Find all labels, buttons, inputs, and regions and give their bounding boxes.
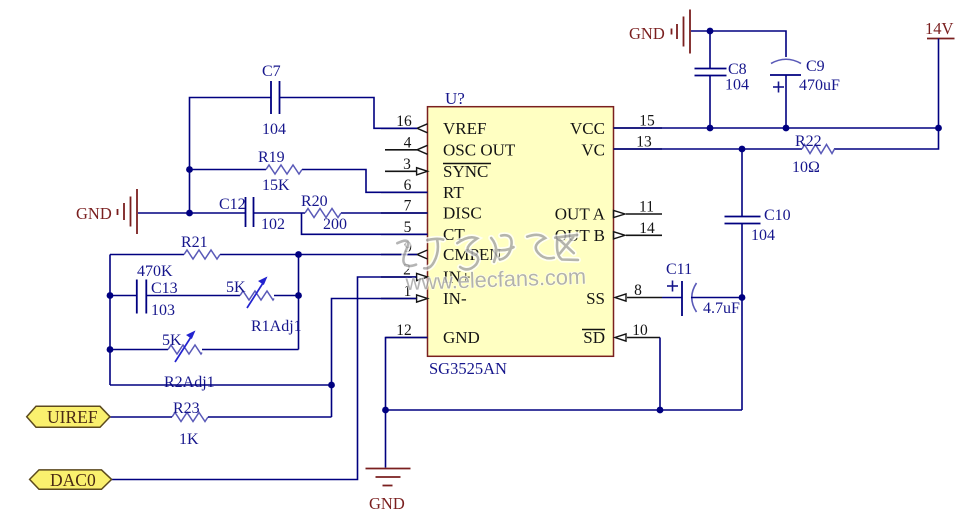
- resistor R19: [266, 165, 302, 174]
- svg-text:15K: 15K: [262, 177, 290, 194]
- capacitor C8: [695, 31, 727, 128]
- svg-text:C11: C11: [666, 261, 692, 278]
- svg-text:R23: R23: [173, 400, 200, 417]
- value 104 (C8): [725, 77, 749, 94]
- wire bottom of loop to node: [110, 384, 332, 386]
- value 470K: [137, 263, 173, 280]
- wire junction to pin 5: [302, 213, 428, 234]
- label R19: [258, 149, 285, 166]
- ground GND left symbol: [118, 189, 138, 234]
- svg-text:VC: VC: [581, 141, 605, 160]
- value 200: [323, 216, 347, 233]
- label R1Adj1: [251, 318, 302, 335]
- svg-text:UIREF: UIREF: [47, 407, 98, 427]
- wire pin 1 IN- vertical: [332, 299, 417, 418]
- svg-text:VCC: VCC: [570, 119, 605, 138]
- svg-text:C9: C9: [806, 58, 825, 75]
- value 15K: [262, 177, 290, 194]
- svg-text:C13: C13: [151, 280, 178, 297]
- resistor R21: [184, 250, 220, 259]
- resistor R20: [305, 209, 341, 218]
- svg-text:SG3525AN: SG3525AN: [429, 359, 507, 378]
- value 10ohm: [792, 159, 820, 176]
- svg-text:6: 6: [404, 177, 412, 194]
- svg-text:R22: R22: [795, 133, 822, 150]
- svg-text:13: 13: [636, 134, 652, 151]
- label C8: [728, 61, 747, 78]
- svg-text:SD: SD: [583, 328, 605, 347]
- port DAC0: [30, 470, 112, 490]
- svg-text:5K: 5K: [226, 279, 246, 296]
- wire VC pin 13 net with R22: [614, 128, 939, 149]
- svg-text:3: 3: [403, 156, 411, 173]
- svg-text:C7: C7: [262, 63, 281, 80]
- capacitor C12: [246, 197, 254, 227]
- svg-text:8: 8: [634, 282, 642, 299]
- potentiometer R1Adj1: [240, 291, 274, 300]
- pin stubs U1 left (pins 16,4,3,6,7,5,9,2,1,12): [381, 128, 428, 337]
- wire GND left to C12: [138, 212, 246, 214]
- capacitor C11 electrolytic: [662, 281, 742, 316]
- label GND top right: [629, 24, 665, 43]
- wire VCC pin 15 net: [614, 127, 939, 129]
- value 4.7uF: [703, 300, 740, 317]
- svg-text:102: 102: [261, 216, 285, 233]
- wire GND top to C8 C9: [691, 31, 786, 57]
- label GND left: [76, 204, 112, 223]
- label R20: [301, 193, 328, 210]
- label C9: [806, 58, 825, 75]
- svg-text:VREF: VREF: [443, 119, 486, 138]
- wire UIREF to R23 to node: [110, 416, 332, 418]
- svg-text:R1Adj1: R1Adj1: [251, 318, 302, 335]
- resistor R22: [802, 145, 835, 154]
- plus sign C11: [667, 281, 678, 292]
- port UIREF: [27, 406, 110, 427]
- svg-text:OUT A: OUT A: [555, 205, 606, 224]
- svg-text:4.7uF: 4.7uF: [703, 300, 740, 317]
- wire R19 net to pin 6: [190, 170, 428, 193]
- resistor R23: [172, 413, 208, 422]
- svg-text:14V: 14V: [925, 19, 954, 38]
- svg-text:R20: R20: [301, 193, 328, 210]
- svg-text:DISC: DISC: [443, 204, 482, 223]
- label R2Adj1: [164, 374, 215, 391]
- svg-text:16: 16: [396, 113, 412, 130]
- svg-text:104: 104: [751, 227, 775, 244]
- wire R2Adj1 line: [110, 349, 299, 351]
- label C10: [764, 207, 791, 224]
- svg-text:GND: GND: [443, 328, 480, 347]
- capacitor C13: [137, 280, 147, 314]
- wire C13 to R1Adj1: [110, 295, 299, 297]
- svg-text:RT: RT: [443, 183, 464, 202]
- wire pin 2 IN+ to DAC0: [112, 277, 417, 480]
- part label SG3525AN: [429, 359, 507, 378]
- svg-text:14: 14: [639, 220, 655, 237]
- value 104 (C7): [262, 121, 286, 138]
- svg-text:4: 4: [404, 135, 412, 152]
- svg-text:DAC0: DAC0: [50, 470, 96, 490]
- svg-text:470K: 470K: [137, 263, 173, 280]
- label 5K (R2Adj1): [162, 332, 182, 349]
- wire C7 net to pin 16: [190, 98, 418, 214]
- watermark: [397, 232, 586, 295]
- label C7: [262, 63, 281, 80]
- capacitor C7: [271, 81, 280, 114]
- wire C12 to R20 to pin 7: [254, 212, 428, 214]
- label R22: [795, 133, 822, 150]
- svg-text:1K: 1K: [179, 431, 199, 448]
- value 1K: [179, 431, 199, 448]
- pin arrows U1 (chevrons pins 16,4,9; input triangles pins 3,2,1; out triangles 11,14; in triangles 8,10): [417, 124, 626, 341]
- svg-text:11: 11: [639, 199, 654, 216]
- wire left loop vertical: [109, 255, 111, 386]
- svg-text:5K: 5K: [162, 332, 182, 349]
- pot arrow R1Adj1: [247, 278, 267, 309]
- label 5K (R1Adj1): [226, 279, 246, 296]
- wire R21 net to pin 9: [110, 254, 417, 256]
- pin name overline SYNC: [443, 163, 491, 165]
- wire right loop vertical: [298, 255, 300, 350]
- wire C10 vertical: [741, 149, 743, 410]
- pin name overline SD: [582, 329, 605, 331]
- potentiometer R2Adj1: [168, 345, 202, 354]
- pin numbers U1 left: [396, 113, 412, 339]
- svg-text:104: 104: [725, 77, 749, 94]
- svg-text:12: 12: [396, 322, 412, 339]
- pin names U1 right: [555, 119, 606, 347]
- svg-text:GND: GND: [369, 494, 405, 513]
- label R23: [173, 400, 200, 417]
- label 14V: [925, 19, 954, 38]
- capacitor C9 electrolytic: [770, 59, 801, 128]
- wire pin 12 GND net: [386, 338, 743, 411]
- svg-text:10Ω: 10Ω: [792, 159, 820, 176]
- wire pin 10 SD down: [659, 338, 661, 411]
- designator U?: [445, 89, 465, 108]
- ground GND top right symbol: [672, 10, 691, 54]
- label C12: [219, 196, 246, 213]
- svg-text:C10: C10: [764, 207, 791, 224]
- svg-text:R21: R21: [181, 234, 208, 251]
- svg-text:104: 104: [262, 121, 286, 138]
- pot arrow R2Adj1: [175, 332, 195, 363]
- value 103: [151, 302, 175, 319]
- svg-text:U?: U?: [445, 89, 465, 108]
- plus sign C9: [773, 82, 784, 93]
- power 14V symbol: [927, 39, 955, 129]
- pin names U1 left: [443, 119, 516, 347]
- svg-text:200: 200: [323, 216, 347, 233]
- svg-text:103: 103: [151, 302, 175, 319]
- value 470uF: [799, 77, 840, 94]
- value 102: [261, 216, 285, 233]
- pin stubs U1 right (pins 15,13,11,14,8,10): [614, 128, 663, 338]
- label C11: [666, 261, 692, 278]
- svg-text:GND: GND: [629, 24, 665, 43]
- value 104 (C10): [751, 227, 775, 244]
- svg-text:C12: C12: [219, 196, 246, 213]
- svg-text:SS: SS: [586, 289, 605, 308]
- pin numbers U1 right: [632, 113, 655, 340]
- svg-text:OSC OUT: OSC OUT: [443, 141, 516, 160]
- svg-text:SYNC: SYNC: [443, 162, 488, 181]
- capacitor C10: [725, 217, 761, 224]
- ground GND bottom symbol: [366, 410, 411, 486]
- svg-text:C8: C8: [728, 61, 747, 78]
- svg-text:15: 15: [639, 113, 655, 130]
- svg-text:R19: R19: [258, 149, 285, 166]
- label GND bottom: [369, 494, 405, 513]
- svg-text:10: 10: [632, 322, 648, 339]
- svg-text:GND: GND: [76, 204, 112, 223]
- svg-text:R2Adj1: R2Adj1: [164, 374, 215, 391]
- svg-text:5: 5: [404, 219, 412, 236]
- svg-text:7: 7: [404, 198, 412, 215]
- label C13: [151, 280, 178, 297]
- op-amp U1 SG3525AN body: [428, 107, 614, 357]
- svg-text:470uF: 470uF: [799, 77, 840, 94]
- label R21: [181, 234, 208, 251]
